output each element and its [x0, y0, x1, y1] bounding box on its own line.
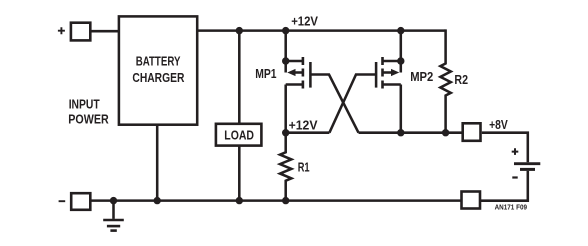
svg-text:INPUT: INPUT [69, 97, 100, 111]
resistor R1 [280, 133, 291, 201]
svg-text:+12V: +12V [289, 119, 319, 133]
label: MP2 [410, 70, 433, 84]
label: +12V (top rail) [291, 15, 318, 29]
transistor MP2 [376, 31, 401, 89]
node: node B junction at R2 [442, 129, 449, 136]
terminal: +8V output square [463, 123, 481, 141]
load box [216, 124, 262, 146]
node: top rail junction at MP2 source [397, 27, 404, 34]
wire: top rail down to LOAD [238, 31, 241, 124]
svg-text:R2: R2 [454, 73, 468, 87]
label: − (input) [59, 200, 66, 202]
wire: +12V top rail from charger to R2 [197, 29, 445, 32]
transistor MP1 [286, 31, 311, 89]
node: ground rail junction at charger [154, 197, 161, 204]
wire: MP1 drain down to node A [284, 85, 287, 133]
node: top rail junction at MP1 source [282, 27, 289, 34]
svg-text:+8V: +8V [489, 118, 508, 132]
wire: ground rail [91, 199, 462, 202]
label: + (input) [58, 27, 65, 34]
label: +8V [489, 118, 508, 132]
svg-text:MP2: MP2 [410, 70, 433, 84]
svg-text:POWER: POWER [68, 113, 108, 127]
label: INPUT POWER [68, 97, 108, 126]
node: ground rail junction at LOAD [236, 197, 243, 204]
svg-text:R1: R1 [298, 161, 310, 175]
label: MP1 [255, 67, 276, 81]
wire: MP2 drain down to node B [400, 85, 403, 133]
svg-text:AN171 F09: AN171 F09 [495, 204, 528, 211]
svg-text:+12V: +12V [291, 15, 318, 29]
terminal: output return square [462, 192, 481, 209]
resistor R2 [440, 29, 450, 132]
wire: node B segment to +8V terminal [359, 131, 463, 134]
svg-text:MP1: MP1 [255, 67, 276, 81]
label: +12V (node A) [289, 119, 319, 133]
node: node A junction at R1/MP1 drain [282, 129, 289, 136]
battery charger box [119, 16, 197, 124]
wire: +8V terminal to battery + plate [482, 133, 528, 163]
node: MP1 source-body junction [282, 57, 289, 64]
wire: MP2 gate to node A (cross-couple) [329, 75, 375, 133]
node: node B junction at MP2 drain [397, 129, 404, 136]
wire: node A segment (+12V bottom) [286, 131, 330, 134]
label: AN171 F09 [495, 204, 528, 211]
wire: + input to battery charger [90, 30, 119, 33]
svg-text:BATTERY: BATTERY [136, 55, 181, 69]
label: R2 [454, 73, 468, 87]
wire: charger bottom pin to ground rail [156, 125, 159, 201]
label: + (battery) [512, 148, 519, 155]
svg-text:CHARGER: CHARGER [132, 71, 184, 85]
wire: MP1 gate to node B (cross-couple) [312, 75, 359, 133]
label: R1 [298, 161, 310, 175]
ground symbol [103, 201, 124, 231]
svg-text:LOAD: LOAD [224, 129, 254, 143]
wire: LOAD to ground rail [238, 146, 241, 201]
terminal: + input square [71, 23, 90, 41]
terminal: − input square [71, 193, 90, 210]
node: ground rail junction at R1 [282, 197, 289, 204]
node: MP2 source-body junction [397, 57, 404, 64]
node: ground rail junction at ground symbol [110, 197, 117, 204]
label: − (battery) [512, 176, 517, 178]
wire: battery − plate to output return square [481, 171, 528, 201]
battery cell [514, 164, 540, 170]
label: LOAD [224, 129, 254, 143]
node: top rail junction at LOAD [236, 27, 243, 34]
label: BATTERY CHARGER [132, 55, 184, 85]
